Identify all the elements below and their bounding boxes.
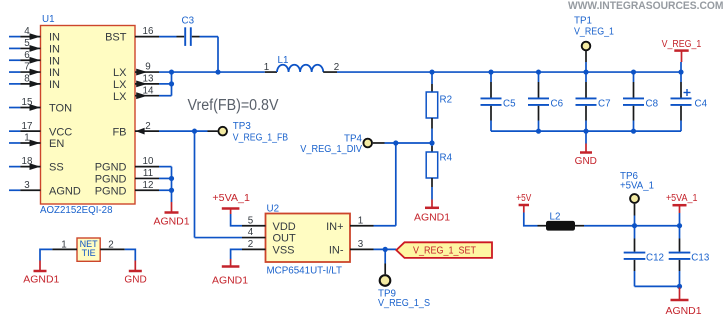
svg-text:IN: IN <box>49 67 60 79</box>
svg-text:C5: C5 <box>503 98 516 109</box>
svg-text:+5V: +5V <box>516 193 531 204</box>
svg-text:11: 11 <box>143 168 153 179</box>
svg-text:V_REG_1_S: V_REG_1_S <box>378 298 430 309</box>
svg-text:TIE: TIE <box>82 248 96 258</box>
svg-text:2: 2 <box>108 239 113 250</box>
svg-text:BST: BST <box>105 32 127 44</box>
svg-text:TON: TON <box>49 103 72 115</box>
svg-text:C7: C7 <box>598 98 611 109</box>
svg-text:L1: L1 <box>278 55 289 66</box>
svg-text:14: 14 <box>143 85 154 96</box>
svg-text:12: 12 <box>143 180 154 191</box>
svg-text:V_REG_1: V_REG_1 <box>574 27 614 38</box>
svg-text:+5VA_1: +5VA_1 <box>666 193 698 204</box>
svg-text:1: 1 <box>24 133 29 144</box>
svg-text:Vref(FB)=0.8V: Vref(FB)=0.8V <box>188 97 280 114</box>
svg-text:PGND: PGND <box>95 174 127 186</box>
svg-text:+5VA_1: +5VA_1 <box>212 193 250 204</box>
svg-text:AGND1: AGND1 <box>212 276 248 287</box>
svg-text:PGND: PGND <box>95 162 127 174</box>
svg-text:MCP6541UT-I/LT: MCP6541UT-I/LT <box>267 266 343 277</box>
svg-text:9: 9 <box>145 62 150 73</box>
svg-text:V_REG_1_SET: V_REG_1_SET <box>413 245 476 256</box>
svg-text:R2: R2 <box>440 95 453 106</box>
svg-text:C6: C6 <box>551 98 564 109</box>
svg-text:U2: U2 <box>267 203 280 214</box>
svg-text:1: 1 <box>61 239 66 250</box>
svg-text:U1: U1 <box>42 14 55 25</box>
svg-text:V_REG_1_DIV: V_REG_1_DIV <box>300 144 362 155</box>
svg-text:6: 6 <box>24 50 30 61</box>
svg-text:R4: R4 <box>440 153 453 164</box>
svg-text:VSS: VSS <box>273 244 295 256</box>
svg-text:+5VA_1: +5VA_1 <box>620 180 654 191</box>
svg-text:4: 4 <box>248 227 254 238</box>
svg-text:L2: L2 <box>550 212 561 223</box>
svg-text:17: 17 <box>22 121 33 132</box>
svg-text:1: 1 <box>358 215 363 226</box>
svg-text:IN: IN <box>49 32 60 44</box>
svg-text:WWW.INTEGRASOURCES.COM: WWW.INTEGRASOURCES.COM <box>568 0 724 12</box>
svg-text:3: 3 <box>358 239 364 250</box>
svg-text:TP4: TP4 <box>344 133 363 144</box>
svg-text:2: 2 <box>248 239 253 250</box>
svg-text:AGND1: AGND1 <box>23 275 59 286</box>
svg-text:C4: C4 <box>695 98 708 109</box>
svg-text:AGND1: AGND1 <box>154 217 190 228</box>
svg-text:AGND1: AGND1 <box>414 213 450 224</box>
svg-text:PGND: PGND <box>95 185 127 197</box>
svg-text:GND: GND <box>575 156 597 167</box>
svg-text:V_REG_1: V_REG_1 <box>662 39 702 50</box>
svg-text:AGND: AGND <box>49 185 81 197</box>
svg-text:TP1: TP1 <box>574 16 592 27</box>
svg-text:AOZ2152EQI-28: AOZ2152EQI-28 <box>40 205 113 216</box>
svg-text:AGND1: AGND1 <box>666 306 702 317</box>
svg-text:C13: C13 <box>691 252 710 263</box>
svg-text:GND: GND <box>124 275 146 286</box>
svg-text:EN: EN <box>49 138 64 150</box>
svg-text:4: 4 <box>24 26 30 37</box>
svg-text:SS: SS <box>49 162 64 174</box>
svg-text:TP3: TP3 <box>233 121 252 132</box>
svg-text:18: 18 <box>22 156 33 167</box>
svg-text:IN: IN <box>49 55 60 67</box>
svg-text:C12: C12 <box>646 252 664 263</box>
svg-text:10: 10 <box>143 156 154 167</box>
svg-text:5: 5 <box>248 215 254 226</box>
svg-text:2: 2 <box>334 62 339 73</box>
svg-text:LX: LX <box>113 67 127 79</box>
svg-text:13: 13 <box>143 73 154 84</box>
svg-text:5: 5 <box>24 38 30 49</box>
svg-text:IN: IN <box>49 79 60 91</box>
svg-text:IN: IN <box>49 44 60 56</box>
svg-text:FB: FB <box>112 126 126 138</box>
svg-text:VDD: VDD <box>273 221 296 233</box>
svg-text:VCC: VCC <box>49 126 72 138</box>
svg-text:1: 1 <box>264 62 269 73</box>
svg-text:7: 7 <box>24 62 29 73</box>
svg-text:8: 8 <box>24 73 30 84</box>
svg-text:LX: LX <box>113 79 127 91</box>
svg-text:IN+: IN+ <box>326 221 343 233</box>
svg-text:C8: C8 <box>646 98 659 109</box>
svg-text:2: 2 <box>145 121 150 132</box>
svg-text:16: 16 <box>143 26 154 37</box>
svg-text:V_REG_1_FB: V_REG_1_FB <box>233 132 289 143</box>
svg-text:3: 3 <box>24 180 30 191</box>
svg-text:15: 15 <box>22 97 33 108</box>
svg-text:LX: LX <box>113 91 127 103</box>
svg-text:IN-: IN- <box>329 244 344 256</box>
svg-text:C3: C3 <box>182 15 195 26</box>
svg-text:OUT: OUT <box>273 233 297 245</box>
